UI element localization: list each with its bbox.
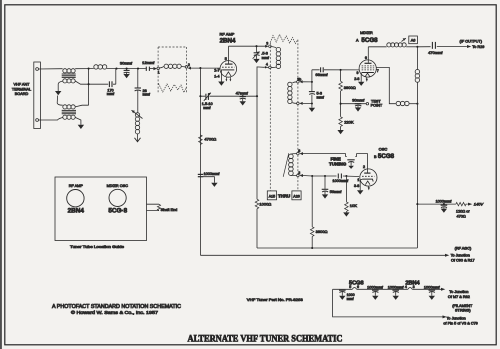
svg-text:B: B bbox=[374, 155, 377, 159]
svg-text:2BN4: 2BN4 bbox=[405, 280, 420, 286]
plate line to coil E bbox=[368, 46, 386, 48]
VHF ANT TERMINAL BOARD box bbox=[12, 62, 41, 129]
A26 box bbox=[292, 191, 301, 200]
svg-text:68mmf: 68mmf bbox=[315, 72, 328, 77]
tube V2 mixer 5CG8 bbox=[359, 60, 376, 81]
wire ground stem to T2 bbox=[57, 96, 63, 106]
svg-text:1-4: 1-4 bbox=[214, 74, 219, 78]
svg-text:1000mmf: 1000mmf bbox=[367, 285, 384, 289]
svg-text:1000mmf: 1000mmf bbox=[204, 172, 221, 176]
resistor 220K bbox=[337, 117, 353, 134]
wire contact2 to RF grid bbox=[191, 67, 220, 69]
wire T2 secondary right down bbox=[75, 117, 81, 124]
svg-text:mmf: mmf bbox=[347, 297, 354, 301]
svg-text:(FILAMENT: (FILAMENT bbox=[452, 304, 473, 308]
svg-text:2: 2 bbox=[363, 165, 365, 169]
node dot bbox=[255, 45, 257, 47]
capacitor 1000mmf osc grid bbox=[332, 174, 349, 183]
svg-text:3900Ω: 3900Ω bbox=[344, 85, 356, 90]
svg-text:MIXER: MIXER bbox=[360, 30, 373, 35]
wire from x257 up to contact4 bbox=[257, 67, 264, 96]
switch wiper arrow to A6 bbox=[402, 38, 406, 41]
svg-text:1.5-10: 1.5-10 bbox=[202, 102, 213, 106]
mixer grid coil C bbox=[288, 82, 297, 104]
resistor 4700ohm bbox=[199, 135, 217, 145]
IF OUTPUT arrow bbox=[467, 45, 471, 48]
svg-text:(RF AGC): (RF AGC) bbox=[455, 247, 472, 251]
capacitor 1000mmf B+ bbox=[436, 200, 453, 213]
wire T1 secondary left to ground bbox=[58, 81, 63, 84]
IF coil F on B+ line bbox=[415, 47, 420, 248]
wire main line bbox=[117, 68, 146, 70]
svg-text:MIXER OSC: MIXER OSC bbox=[107, 184, 129, 188]
svg-text:of Pin 5 of V3 & C79: of Pin 5 of V3 & C79 bbox=[443, 321, 477, 325]
wire vertical node x88.6 bbox=[88, 69, 90, 106]
svg-text:© Howard W. Sams & Co., Inc. 1: © Howard W. Sams & Co., Inc. 1957 bbox=[71, 309, 159, 315]
test line bbox=[341, 103, 367, 105]
variable inductor L2 bbox=[132, 110, 143, 142]
ground below V3 bbox=[360, 179, 362, 190]
capacitor 1000mmf fil 3 bbox=[388, 285, 405, 300]
svg-text:3-8: 3-8 bbox=[354, 184, 359, 188]
wire T2 secondary left to terminal2 bbox=[39, 117, 63, 120]
svg-text:RF AMP: RF AMP bbox=[220, 32, 235, 37]
svg-text:10K: 10K bbox=[350, 203, 357, 208]
contact 3 bbox=[269, 45, 272, 48]
trimmer capacitor 1.5-10 mmf bbox=[202, 93, 213, 111]
svg-text:mmf: mmf bbox=[203, 106, 211, 110]
svg-text:470Ω: 470Ω bbox=[457, 215, 466, 219]
node dot bbox=[416, 46, 418, 48]
svg-text:2-8: 2-8 bbox=[354, 77, 359, 81]
svg-text:RF AMP: RF AMP bbox=[69, 184, 84, 188]
ground below V1 bbox=[220, 70, 223, 82]
V1 plate lead bbox=[228, 46, 230, 63]
node dot test line bbox=[340, 103, 342, 105]
pin7 wire down bbox=[376, 67, 396, 103]
node dot bbox=[115, 68, 117, 70]
svg-text:mmf: mmf bbox=[143, 93, 151, 97]
node dot bbox=[340, 69, 342, 71]
tuner tube location guide box bbox=[55, 177, 147, 241]
V2 plate lead bbox=[367, 47, 369, 63]
svg-text:5CG8: 5CG8 bbox=[361, 37, 378, 44]
svg-text:9: 9 bbox=[357, 71, 359, 75]
svg-text:mmf: mmf bbox=[107, 92, 115, 96]
mixer plate coil E bbox=[387, 43, 418, 47]
grid return wire y96 bbox=[199, 68, 201, 255]
svg-text:1000Ω: 1000Ω bbox=[259, 201, 271, 206]
svg-text:4: 4 bbox=[266, 63, 268, 67]
terminal 1 bbox=[36, 68, 39, 71]
capacitor 1000mmf fil 4 bbox=[424, 285, 441, 300]
svg-text:To R29: To R29 bbox=[472, 45, 484, 49]
svg-text:1000mmf: 1000mmf bbox=[424, 285, 441, 289]
svg-text:56mmf: 56mmf bbox=[330, 190, 343, 194]
svg-text:220K: 220K bbox=[344, 120, 354, 125]
contact 1 bbox=[157, 67, 160, 70]
svg-text:Shaft End: Shaft End bbox=[161, 208, 178, 212]
node x311.9 bbox=[311, 81, 313, 83]
svg-text:A15: A15 bbox=[269, 195, 275, 199]
capacitor 5-3 mmf bbox=[309, 91, 325, 99]
filament hump V1 pins 4-3 bbox=[408, 288, 412, 290]
contact 4b bbox=[297, 102, 300, 105]
capacitor 1000mmf fil 1 bbox=[339, 290, 355, 301]
arrow at 3b bbox=[299, 80, 302, 83]
wire to 470mmf bbox=[417, 46, 430, 48]
capacitor 47mmf bbox=[236, 90, 249, 105]
svg-text:mmf: mmf bbox=[317, 96, 325, 100]
filament arrow right bbox=[441, 288, 445, 291]
svg-text:(IF OUTPUT): (IF OUTPUT) bbox=[460, 40, 483, 44]
svg-text:To Junction: To Junction bbox=[449, 290, 468, 294]
svg-text:2BN4: 2BN4 bbox=[220, 38, 236, 45]
ground below V2 bbox=[360, 73, 363, 82]
svg-text:140V: 140V bbox=[474, 202, 484, 207]
A6 box bbox=[409, 36, 418, 44]
arrow contact 2 bbox=[188, 67, 191, 70]
svg-text:4700Ω: 4700Ω bbox=[204, 136, 216, 141]
capacitor 68mmf bbox=[312, 67, 360, 77]
svg-text:5: 5 bbox=[349, 285, 351, 289]
svg-text:6: 6 bbox=[357, 285, 359, 289]
ground T1 bbox=[55, 91, 61, 95]
svg-text:Of M7 & R82: Of M7 & R82 bbox=[448, 295, 470, 299]
svg-text:1000mmf: 1000mmf bbox=[436, 200, 453, 204]
svg-text:2: 2 bbox=[298, 171, 300, 175]
node dot bbox=[416, 103, 418, 105]
capacitor 170mmf bbox=[89, 69, 116, 97]
coil A in switch box bbox=[160, 64, 188, 68]
transformer T1 bbox=[62, 69, 76, 83]
svg-text:1000mmf: 1000mmf bbox=[388, 285, 405, 289]
fine tuning trimmer bbox=[329, 156, 355, 169]
A15 box bbox=[267, 191, 276, 200]
switch section A dashed box bbox=[158, 47, 186, 94]
transformer T2 bbox=[62, 105, 76, 119]
140V arrow bbox=[468, 203, 472, 206]
svg-text:2-7: 2-7 bbox=[214, 68, 219, 72]
coil D bbox=[396, 101, 417, 105]
svg-text:TERMINAL: TERMINAL bbox=[12, 87, 31, 91]
svg-text:Of C90 & R17: Of C90 & R17 bbox=[451, 258, 475, 262]
arrow to contact 3 bbox=[265, 45, 268, 48]
svg-text:120Ω or: 120Ω or bbox=[456, 210, 470, 214]
svg-text:5: 5 bbox=[225, 57, 227, 61]
node dot bbox=[199, 67, 201, 69]
trimmer capacitor .5-3 mmf bbox=[253, 46, 270, 63]
capacitor 12mmf bbox=[142, 60, 155, 71]
plate wire to switch bbox=[229, 45, 266, 47]
shaft end symbol bbox=[147, 204, 178, 212]
filament left leg and bottom run bbox=[333, 289, 443, 317]
contact 4 bbox=[269, 66, 272, 69]
terminal 2 bbox=[36, 119, 39, 122]
resistor 1000ohm bbox=[255, 96, 271, 248]
svg-text:47mmf: 47mmf bbox=[236, 90, 249, 95]
wire T2 primary top right bbox=[75, 105, 88, 107]
svg-text:3b: 3b bbox=[297, 77, 301, 81]
B+ return line y248 bbox=[257, 247, 417, 249]
filament string bbox=[333, 280, 478, 325]
svg-text:7: 7 bbox=[377, 69, 379, 73]
svg-text:OSC: OSC bbox=[379, 146, 388, 151]
svg-text:Tuner Tube Location Guide: Tuner Tube Location Guide bbox=[70, 245, 124, 249]
svg-text:30mmf: 30mmf bbox=[120, 61, 133, 66]
capacitor 30mmf bbox=[120, 61, 133, 79]
filament hump V3 pins 5-6 bbox=[352, 288, 356, 290]
svg-text:POINT: POINT bbox=[371, 104, 383, 108]
capacitor 1000mmf fil 2 bbox=[367, 285, 384, 300]
ground below 5-3 bbox=[309, 108, 315, 112]
wire down to 28mmf bbox=[137, 69, 139, 88]
capacitor 470mmf bbox=[428, 42, 467, 55]
tube V3 osc triode bbox=[360, 169, 377, 190]
capacitor 1000mmf AGC bypass bbox=[198, 172, 221, 187]
wire T1 primary top right bbox=[75, 68, 88, 70]
sawtooth element A bbox=[159, 84, 187, 93]
oscillator coil G bbox=[283, 153, 296, 177]
B+ feed line 140V bbox=[417, 203, 456, 205]
inductor L1 antenna series coil bbox=[89, 65, 117, 69]
svg-text:BOARD: BOARD bbox=[15, 92, 29, 96]
svg-text:TUNING: TUNING bbox=[329, 161, 347, 166]
capacitor 28mmf bbox=[135, 88, 151, 113]
svg-text:A: A bbox=[356, 39, 359, 43]
sawtooth element B bbox=[270, 35, 298, 44]
svg-text:A26: A26 bbox=[293, 195, 299, 199]
svg-text:To Junction: To Junction bbox=[447, 317, 466, 321]
tube V1 RF amp 2BN4 bbox=[220, 61, 237, 82]
svg-text:VHF Tuner Part No. PR-8263: VHF Tuner Part No. PR-8263 bbox=[247, 298, 303, 302]
svg-text:3: 3 bbox=[266, 41, 268, 45]
svg-text:To Junction: To Junction bbox=[451, 253, 470, 257]
capacitor 30mmf test bbox=[352, 98, 365, 112]
svg-text:5CG8: 5CG8 bbox=[378, 153, 395, 160]
node dot bbox=[137, 68, 139, 70]
svg-text:ALTERNATE VHF TUNER SCHEMATIC: ALTERNATE VHF TUNER SCHEMATIC bbox=[188, 334, 343, 345]
test point bbox=[366, 103, 368, 105]
svg-text:2: 2 bbox=[188, 63, 190, 67]
contact 2b bbox=[297, 174, 300, 177]
svg-text:2BN4: 2BN4 bbox=[68, 207, 85, 214]
oscillator strip dashed lines bbox=[270, 40, 298, 191]
RF AGC line bbox=[200, 254, 445, 256]
svg-text:A6: A6 bbox=[411, 39, 416, 43]
osc top wire with fine tuning dip bbox=[303, 154, 368, 173]
node dot bbox=[416, 203, 418, 205]
wire T1 secondary right bbox=[75, 81, 88, 84]
svg-text:30mmf: 30mmf bbox=[352, 98, 365, 103]
node dot bbox=[88, 83, 90, 85]
capacitor 56mmf bbox=[322, 176, 343, 199]
osc grid line bbox=[303, 176, 359, 177]
svg-text:470mmf: 470mmf bbox=[428, 50, 443, 55]
filament line bbox=[333, 288, 441, 290]
svg-text:mmf: mmf bbox=[262, 56, 270, 60]
svg-text:8: 8 bbox=[298, 149, 300, 153]
ground T2 bbox=[78, 125, 84, 129]
contact 3b bbox=[297, 81, 300, 84]
contact 8 bbox=[297, 152, 300, 155]
resistor 3900ohm osc bbox=[310, 176, 327, 248]
arrow to contact 1 bbox=[153, 67, 157, 70]
svg-text:1: 1 bbox=[357, 178, 359, 182]
svg-text:VHF ANT: VHF ANT bbox=[13, 82, 30, 86]
svg-text:3900Ω: 3900Ω bbox=[316, 229, 328, 234]
svg-text:5CG·8: 5CG·8 bbox=[108, 207, 127, 214]
svg-text:THRU: THRU bbox=[278, 194, 290, 199]
svg-text:6: 6 bbox=[365, 56, 367, 60]
resistor 120ohm bbox=[456, 202, 470, 218]
resistor 10K bbox=[343, 176, 357, 217]
node dot bbox=[88, 68, 90, 70]
svg-text:STRING): STRING) bbox=[455, 309, 471, 313]
resistor 3900ohm mixer grid bbox=[339, 70, 356, 117]
svg-text:12mmf: 12mmf bbox=[142, 60, 155, 65]
wire terminal1 to T1 bbox=[39, 68, 63, 70]
interstage coil B bbox=[271, 47, 281, 69]
